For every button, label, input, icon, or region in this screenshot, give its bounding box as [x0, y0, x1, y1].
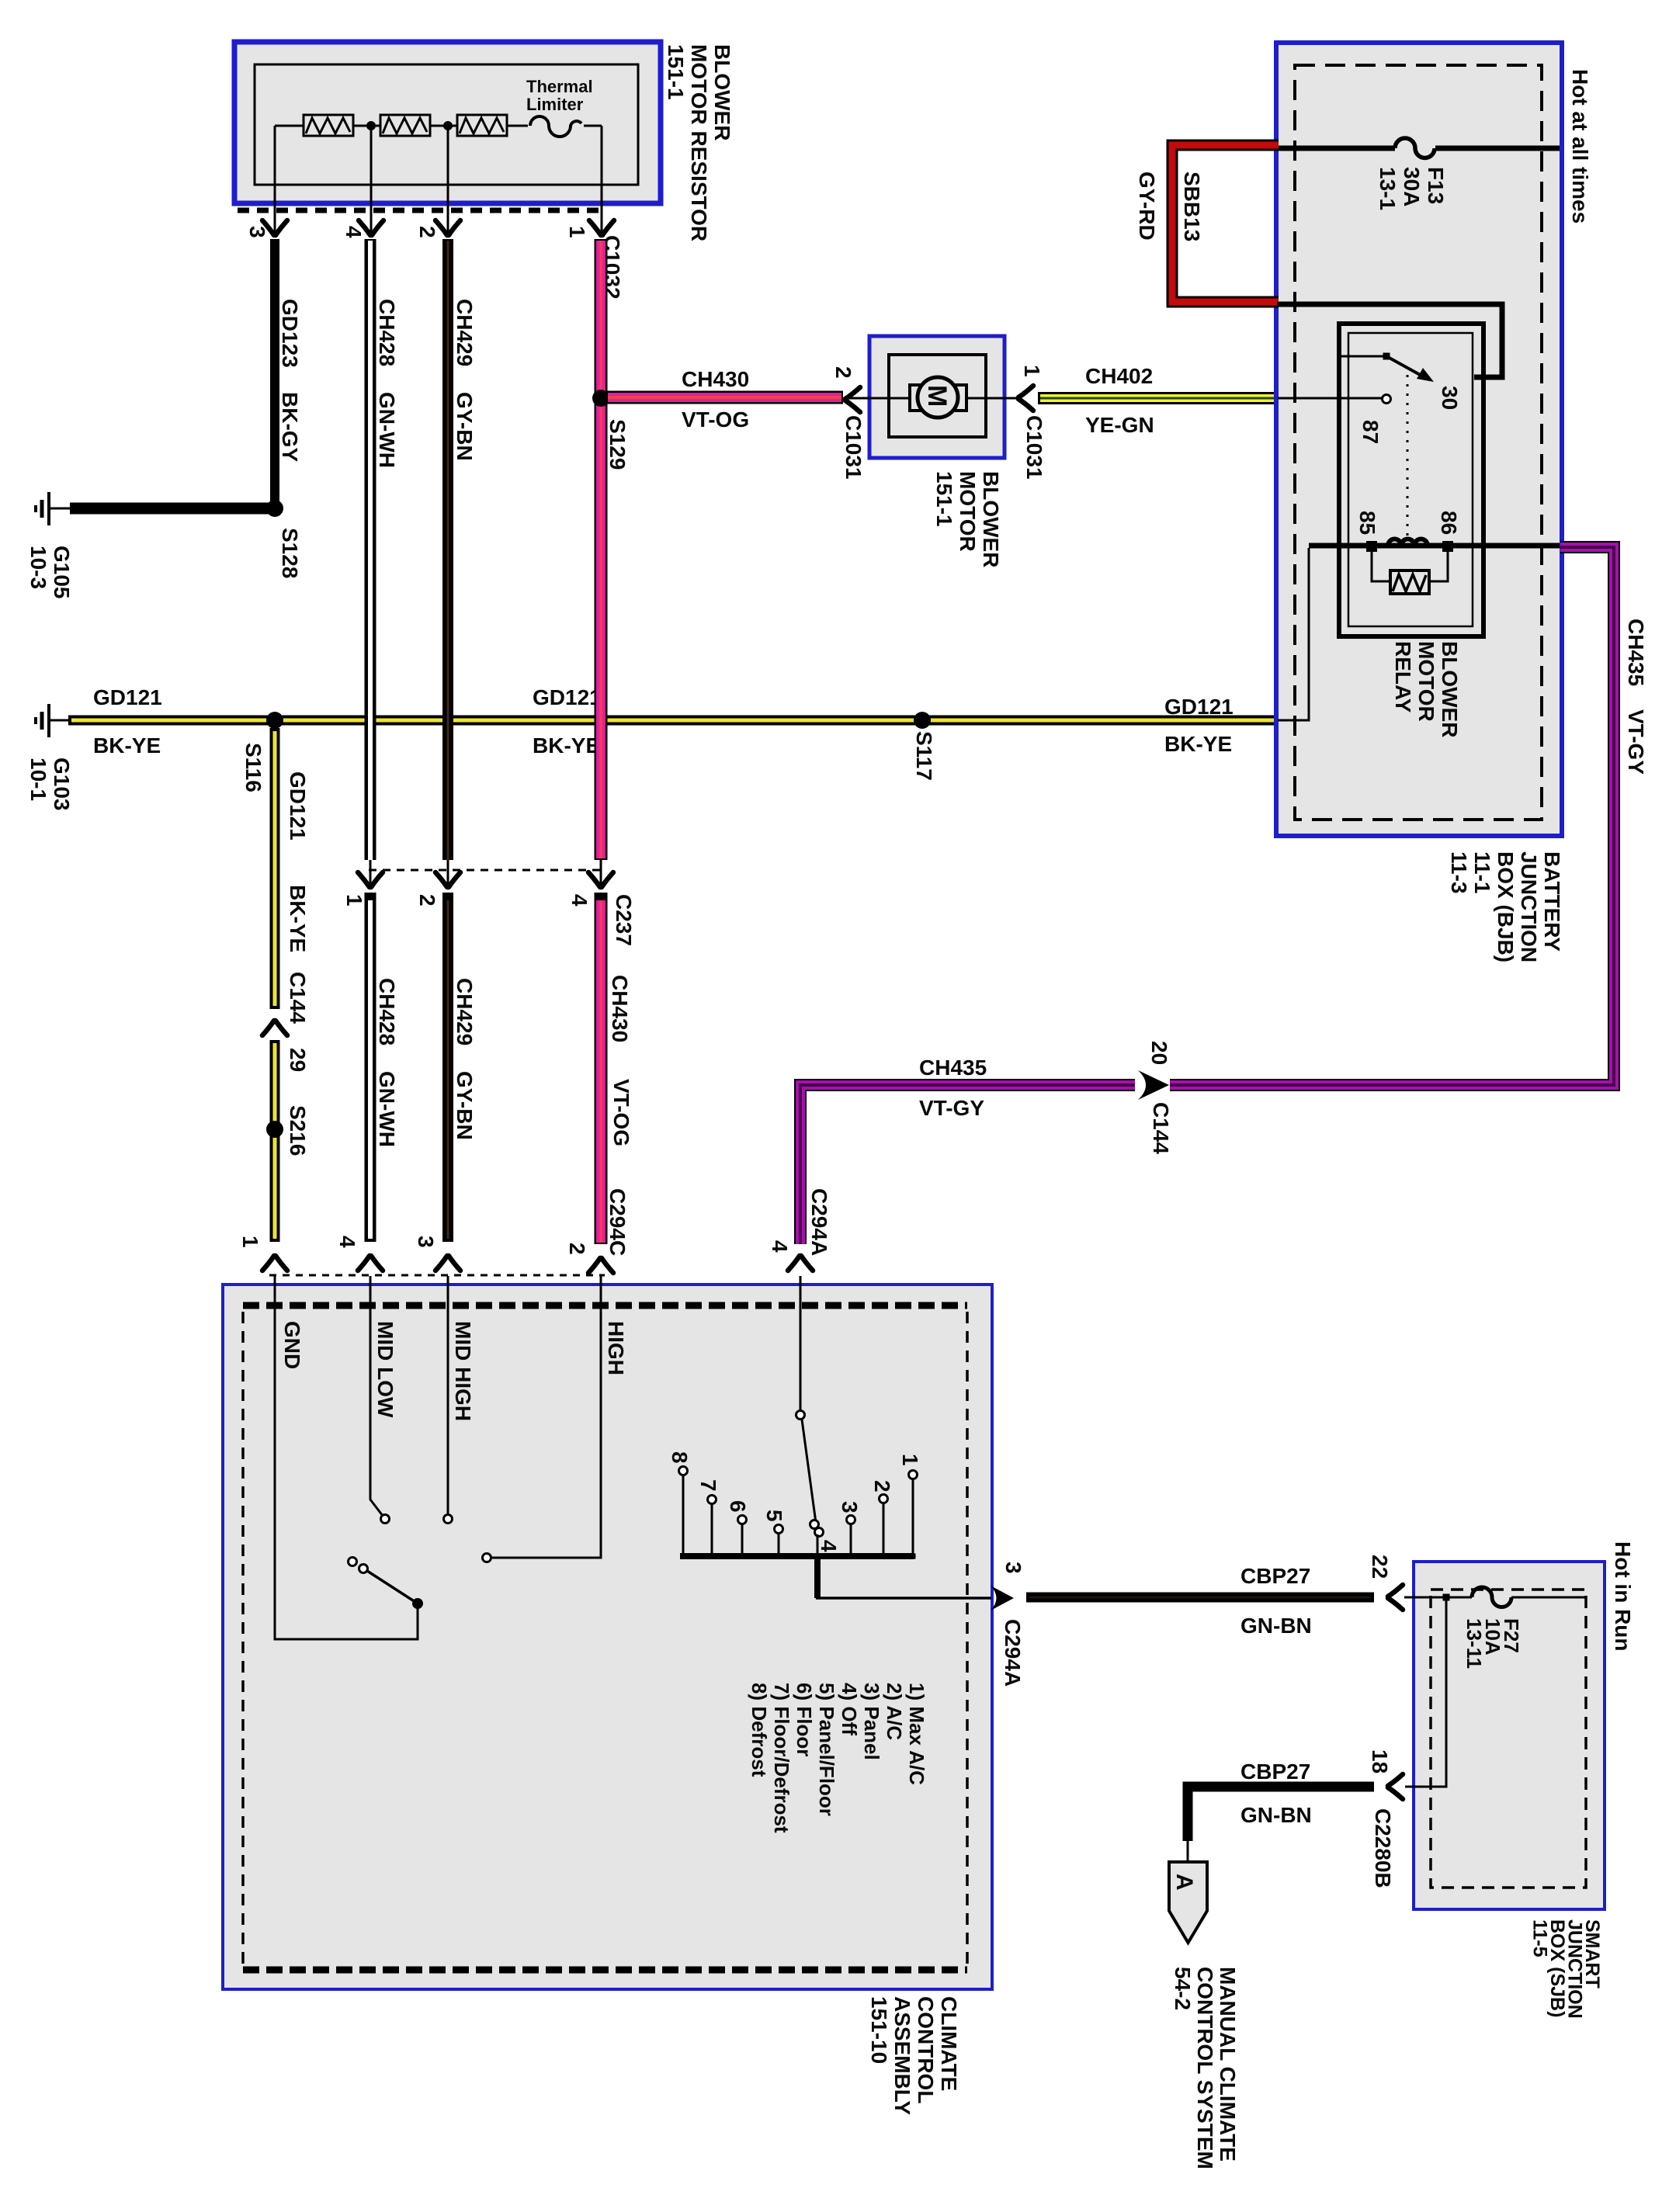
svg-text:BK-YE: BK-YE — [286, 885, 310, 952]
svg-text:Hot in Run: Hot in Run — [1611, 1541, 1635, 1652]
pin 4 arrow — [359, 220, 383, 235]
svg-text:C1031: C1031 — [841, 415, 866, 480]
svg-text:GD121: GD121 — [533, 685, 602, 709]
svg-text:GD123: GD123 — [278, 299, 302, 368]
wire CH429 GY-BN lower — [442, 893, 453, 1242]
wire MID HIGH internal — [447, 1276, 449, 1513]
wire through motor — [845, 397, 1022, 400]
svg-text:5: 5 — [762, 1510, 786, 1522]
connector C237 arrow pin2 — [447, 860, 449, 885]
svg-text:22: 22 — [1368, 1555, 1392, 1579]
splice S216 — [266, 1121, 283, 1138]
svg-text:SMARTJUNCTIONBOX (SJB)11-5: SMARTJUNCTIONBOX (SJB)11-5 — [1529, 1919, 1604, 2019]
svg-text:S129: S129 — [605, 419, 630, 470]
svg-text:18: 18 — [1368, 1749, 1392, 1773]
svg-text:2: 2 — [415, 894, 439, 907]
svg-text:CH402: CH402 — [1085, 364, 1153, 388]
svg-text:8: 8 — [668, 1451, 692, 1464]
wire 29 to S216 — [270, 1040, 280, 1242]
wire CH430 VT-OG vertical upper — [595, 239, 608, 860]
svg-text:BK-YE: BK-YE — [1164, 732, 1232, 756]
svg-text:S116: S116 — [241, 743, 265, 792]
svg-text:1: 1 — [238, 1236, 262, 1248]
resistor R1 — [304, 115, 353, 136]
node F27 branch — [1443, 1594, 1450, 1601]
connector C1031 pin2 arrow — [845, 387, 860, 412]
wire SBB13 GY-RD red loop — [1172, 145, 1279, 302]
connector C1032 dashed line — [238, 208, 604, 213]
svg-text:M: M — [922, 385, 952, 407]
svg-text:C144: C144 — [286, 972, 310, 1024]
svg-text:86: 86 — [1437, 511, 1461, 535]
svg-text:4: 4 — [335, 1236, 359, 1248]
node pin4 tap — [366, 121, 376, 130]
svg-text:F1330A13-1: F1330A13-1 — [1376, 167, 1448, 210]
svg-text:BATTERYJUNCTIONBOX (BJB)11-111: BATTERYJUNCTIONBOX (BJB)11-111-3 — [1447, 851, 1564, 962]
wire CH402 YE-GN — [1038, 392, 1278, 404]
blower motor resistor box 151-1 — [234, 42, 661, 203]
svg-text:MANUAL CLIMATECONTROL SYSTEM54: MANUAL CLIMATECONTROL SYSTEM54-2 — [1171, 1967, 1240, 2169]
node 86 — [1442, 541, 1453, 552]
svg-text:S128: S128 — [278, 528, 302, 578]
mode bus — [680, 1553, 914, 1559]
relay pin 87 — [1278, 397, 1383, 400]
resistor R3 — [457, 115, 507, 136]
svg-text:GN-BN: GN-BN — [1240, 1614, 1312, 1638]
svg-text:GY-BN: GY-BN — [453, 392, 477, 461]
svg-text:VT-GY: VT-GY — [919, 1096, 984, 1120]
pin 1 arrow — [589, 220, 614, 235]
climate control assembly box — [223, 1285, 992, 1989]
fuse F13 — [1395, 138, 1435, 158]
svg-text:1: 1 — [565, 226, 589, 238]
wire into SJB fuse F27 — [1404, 1597, 1472, 1599]
wire GND internal — [275, 1276, 418, 1639]
svg-text:VT-OG: VT-OG — [682, 407, 749, 432]
node 85 — [1366, 541, 1377, 552]
svg-text:C144: C144 — [1149, 1102, 1173, 1154]
svg-text:3: 3 — [1001, 1562, 1025, 1574]
relay switch pivot line — [1341, 355, 1386, 358]
svg-text:4: 4 — [768, 1240, 792, 1253]
svg-text:1: 1 — [898, 1454, 922, 1466]
svg-text:2: 2 — [870, 1480, 894, 1493]
connector C144 pin20 arrow — [1138, 1070, 1169, 1100]
splice S128 — [266, 500, 283, 517]
mode contact 4 — [817, 1534, 819, 1556]
svg-text:S117: S117 — [912, 731, 936, 781]
smart junction box SJB — [1414, 1562, 1605, 1909]
pin 4 arrow into C294A — [358, 1256, 383, 1271]
svg-text:BK-GY: BK-GY — [278, 392, 302, 463]
svg-text:20: 20 — [1147, 1041, 1171, 1065]
svg-text:GD121: GD121 — [286, 771, 310, 841]
svg-text:GN-WH: GN-WH — [375, 1071, 399, 1147]
svg-text:CH428: CH428 — [375, 978, 399, 1045]
svg-text:GD121: GD121 — [93, 685, 162, 709]
mode contact 6 — [741, 1524, 744, 1556]
wire CH430 VT-OG vertical lower — [595, 893, 608, 1244]
pin 3 arrow into C294A — [435, 1256, 460, 1271]
svg-text:CH430: CH430 — [608, 975, 632, 1042]
wire resistor internal bus — [275, 125, 602, 127]
svg-text:BLOWERMOTOR151-1: BLOWERMOTOR151-1 — [932, 471, 1003, 567]
pin 2 arrow — [435, 220, 460, 235]
svg-text:G10310-1: G10310-1 — [26, 758, 74, 811]
svg-text:CBP27: CBP27 — [1240, 1760, 1310, 1784]
svg-text:C237: C237 — [612, 894, 636, 946]
svg-text:C2280B: C2280B — [1371, 1808, 1395, 1888]
wire relay pin30 feed — [1277, 304, 1502, 377]
pin stubs into C1032 — [274, 208, 276, 233]
mode contact 7 — [711, 1503, 713, 1556]
mode switch arm — [802, 1420, 816, 1523]
wire to A arrow — [1187, 1841, 1189, 1863]
svg-text:G10510-3: G10510-3 — [26, 546, 74, 599]
blower motor relay box — [1339, 324, 1483, 636]
svg-text:C1031: C1031 — [1022, 415, 1046, 480]
svg-text:A: A — [1171, 1874, 1197, 1891]
svg-text:CH428: CH428 — [375, 299, 399, 366]
motor brushes — [910, 385, 922, 411]
svg-text:1: 1 — [342, 894, 366, 907]
wire GD123 BK-GY — [270, 239, 279, 508]
svg-text:4: 4 — [567, 894, 592, 907]
wire GD121 BK-YE main run — [68, 716, 1278, 726]
splice S116 — [266, 712, 283, 729]
svg-text:SBB13: SBB13 — [1180, 172, 1204, 241]
svg-text:C294A: C294A — [1001, 1619, 1025, 1687]
resistor R2 — [380, 115, 430, 136]
climate inner dashed border — [243, 1302, 967, 1309]
wire F13 hot feed — [1279, 146, 1395, 151]
pin 2 arrow into C294A — [588, 1258, 613, 1273]
svg-text:S216: S216 — [286, 1105, 310, 1156]
off-page connector A — [1169, 1862, 1207, 1943]
wire CH435 VT-GY to climate — [800, 1085, 1135, 1244]
connector C1031 pin1 arrow — [1018, 386, 1033, 411]
mode contact 5 — [778, 1533, 780, 1556]
svg-text:Hot at all times: Hot at all times — [1568, 69, 1592, 224]
svg-text:Limiter: Limiter — [526, 95, 584, 114]
svg-text:87: 87 — [1358, 420, 1383, 444]
svg-text:C294A: C294A — [807, 1188, 831, 1256]
wire CBP27 GN-BN pin18 — [1188, 1787, 1374, 1841]
svg-text:BK-YE: BK-YE — [93, 733, 161, 758]
svg-text:3: 3 — [414, 1236, 438, 1248]
svg-text:CH430: CH430 — [682, 367, 749, 391]
svg-text:VT-GY: VT-GY — [1624, 709, 1648, 775]
connector C2280B pin18 chevron — [1388, 1774, 1403, 1799]
svg-text:85: 85 — [1355, 511, 1379, 535]
svg-text:2: 2 — [831, 366, 855, 379]
svg-text:4: 4 — [342, 226, 366, 238]
fan switch pivot — [412, 1598, 423, 1609]
svg-text:GY-RD: GY-RD — [1135, 172, 1159, 241]
wire CH428 GN-WH lower — [365, 893, 376, 1242]
connector C294A pin3 arrow — [991, 1586, 1014, 1610]
relay resistor — [1372, 551, 1448, 581]
wire CH430 VT-OG to blower motor — [606, 391, 843, 404]
svg-text:2: 2 — [415, 226, 439, 238]
relay switch arm — [1386, 356, 1423, 376]
svg-text:GN-BN: GN-BN — [1240, 1803, 1312, 1827]
svg-text:YE-GN: YE-GN — [1085, 413, 1154, 437]
svg-text:29: 29 — [286, 1048, 310, 1072]
connector C237 arrow pin1 — [370, 860, 372, 885]
svg-text:MID LOW: MID LOW — [373, 1321, 397, 1418]
node pin2 tap — [443, 121, 453, 130]
svg-text:GD121: GD121 — [1164, 695, 1234, 719]
wire CH429 GY-BN upper — [442, 239, 453, 860]
svg-text:Thermal: Thermal — [526, 77, 593, 96]
svg-text:CH429: CH429 — [453, 299, 477, 366]
mode contact 3 — [850, 1524, 852, 1556]
svg-text:MID HIGH: MID HIGH — [451, 1321, 475, 1421]
connector C294A pin3 chevron — [1388, 1585, 1403, 1610]
connector C237 arrow pin4 — [600, 860, 602, 885]
relay coil wire 85-86 — [1309, 543, 1560, 549]
relay dashed travel line — [1407, 375, 1409, 537]
svg-text:4: 4 — [817, 1540, 841, 1552]
svg-text:CBP27: CBP27 — [1240, 1564, 1310, 1588]
svg-text:30: 30 — [1438, 386, 1462, 410]
relay coil — [1388, 539, 1428, 546]
fan switch arm — [367, 1571, 418, 1604]
mode contact 2 — [883, 1503, 885, 1556]
wire CH435 VT-GY from relay86 down right side — [1170, 547, 1614, 1085]
svg-text:GND: GND — [280, 1321, 304, 1369]
svg-text:6: 6 — [726, 1500, 750, 1513]
splice S117 — [914, 712, 931, 729]
pin 4 arrow into C294A — [788, 1256, 813, 1271]
svg-text:7: 7 — [696, 1479, 720, 1492]
blower motor box 151-1 — [869, 336, 1005, 458]
wire branch to pin18 — [1405, 1600, 1446, 1787]
wire HIGH internal — [492, 1276, 601, 1558]
fuse F27 — [1472, 1587, 1511, 1607]
mode switch feed from C294A pin4 — [800, 1276, 802, 1410]
svg-text:GY-BN: GY-BN — [453, 1071, 477, 1140]
pin 3 arrow — [262, 220, 287, 235]
svg-text:3: 3 — [245, 226, 269, 238]
svg-text:C294C: C294C — [605, 1188, 630, 1256]
svg-text:BLOWERMOTOR RESISTOR151-1: BLOWERMOTOR RESISTOR151-1 — [664, 44, 734, 241]
svg-text:CH435: CH435 — [1624, 619, 1648, 686]
connector C237 dashed line — [369, 869, 605, 872]
ground G103 — [50, 719, 71, 722]
wire CBP27 GN-BN pin22 — [1026, 1593, 1374, 1603]
wire CH428 GN-WH upper — [365, 239, 376, 860]
svg-text:VT-OG: VT-OG — [609, 1079, 633, 1146]
svg-text:1: 1 — [1020, 365, 1044, 377]
pin 1 arrow into C294A — [262, 1256, 287, 1271]
svg-text:CH435: CH435 — [919, 1056, 987, 1080]
svg-text:BK-YE: BK-YE — [533, 733, 600, 758]
svg-text:CLIMATECONTROLASSEMBLY151-10: CLIMATECONTROLASSEMBLY151-10 — [867, 1996, 961, 2115]
mode contact 1 — [912, 1479, 914, 1556]
wire coil85 to GD121 — [1278, 548, 1309, 720]
mode bus output — [814, 1556, 821, 1598]
wire S128 to ground G105 — [70, 503, 275, 515]
svg-text:HIGH: HIGH — [604, 1321, 628, 1375]
svg-text:2: 2 — [565, 1243, 589, 1255]
ground G105 — [50, 508, 71, 510]
svg-text:3: 3 — [838, 1501, 862, 1513]
thermal limiter — [528, 109, 584, 140]
battery junction box BJB — [1276, 43, 1562, 836]
wire MID LOW internal — [370, 1276, 383, 1516]
motor M circle — [918, 377, 958, 418]
connector C294A dashed line — [269, 1274, 605, 1277]
splice S129 — [592, 390, 609, 407]
mode contact 8 — [682, 1475, 685, 1556]
wire GD121 BK-YE to C144 — [270, 728, 280, 1009]
svg-text:CH429: CH429 — [453, 978, 477, 1045]
svg-text:GN-WH: GN-WH — [375, 392, 399, 468]
connector C144 arrow (pin 29) — [262, 1021, 287, 1035]
